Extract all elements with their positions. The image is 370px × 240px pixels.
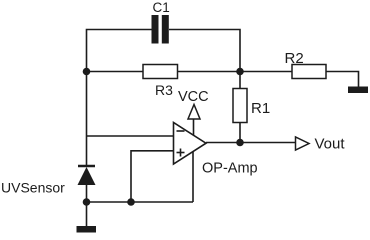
wire op-amp V- pin	[192, 151, 194, 202]
node: feedback-left junction	[83, 68, 91, 76]
wire non-inverting input	[131, 151, 174, 202]
resistor R1	[233, 89, 247, 123]
ground (right)	[348, 87, 368, 94]
svg-text:Vout: Vout	[315, 136, 346, 153]
wire feedback rail right	[178, 71, 241, 73]
wire R2 right lead to ground	[326, 72, 359, 88]
wire R1 top lead	[239, 72, 241, 89]
wire top rail left segment	[87, 30, 152, 72]
VCC supply arrow	[188, 105, 200, 120]
node: feedback-right junction	[236, 68, 244, 76]
wire inverting input	[87, 135, 174, 137]
wire sensor to bottom rail	[86, 185, 88, 226]
ground (left)	[77, 226, 97, 233]
node: sensor-ground junction	[83, 198, 91, 206]
svg-text:VCC: VCC	[178, 89, 209, 105]
node: plus-input ground junction	[127, 198, 135, 206]
svg-text:R2: R2	[285, 50, 304, 67]
photodiode UVSensor	[78, 166, 96, 185]
wire bottom ground rail	[87, 201, 194, 203]
svg-text:C1: C1	[153, 0, 170, 15]
wire VCC lead	[193, 119, 195, 136]
Vout output arrow	[296, 137, 310, 150]
resistor R2	[292, 65, 326, 79]
svg-text:R1: R1	[251, 100, 270, 117]
capacitor C1	[152, 15, 169, 44]
wire R1 bottom lead	[239, 123, 241, 143]
wire top rail right segment	[169, 30, 240, 72]
resistor R3	[143, 65, 178, 79]
wire R2 left lead	[240, 71, 292, 73]
svg-text:R3: R3	[155, 82, 173, 98]
wire left vertical to sensor	[86, 72, 88, 167]
wire op-amp output	[206, 142, 296, 144]
svg-text:OP-Amp: OP-Amp	[202, 161, 258, 177]
node: output junction	[236, 139, 244, 147]
svg-text:UVSensor: UVSensor	[1, 180, 65, 196]
wire feedback rail left	[87, 71, 144, 73]
op-amp U1	[174, 123, 207, 165]
